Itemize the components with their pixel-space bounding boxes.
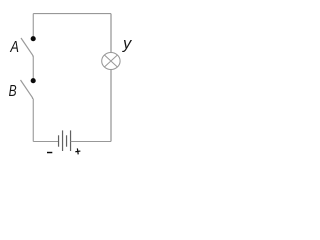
switch B blade xyxy=(21,80,33,99)
switch A blade xyxy=(21,38,33,57)
battery cell 1 short plate (negative) xyxy=(58,135,60,146)
wire bottom left xyxy=(33,141,58,143)
battery cell 1 long plate (positive) xyxy=(62,130,64,151)
switch A contact dot xyxy=(31,36,36,41)
svg-text:B: B xyxy=(9,83,17,100)
wire top xyxy=(33,13,111,15)
label minus xyxy=(47,152,52,153)
lamp Y cross xyxy=(104,55,117,67)
battery cell 2 short plate (negative) xyxy=(66,135,68,146)
wire right lower xyxy=(110,70,112,142)
wire right upper xyxy=(110,14,112,53)
battery cell 2 long plate (positive) xyxy=(70,130,72,151)
svg-text:y: y xyxy=(122,36,133,53)
wire left lower xyxy=(32,99,34,142)
svg-text:A: A xyxy=(10,39,19,56)
wire bottom right xyxy=(71,141,111,143)
wire left upper xyxy=(32,14,34,37)
wire left middle xyxy=(32,57,34,79)
lamp Y circle xyxy=(102,53,120,70)
switch B contact dot xyxy=(31,78,36,83)
label plus xyxy=(75,148,81,155)
